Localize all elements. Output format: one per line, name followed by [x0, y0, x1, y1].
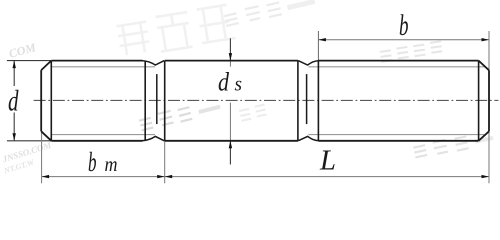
stud outline top edge left thread: [51, 60, 142, 62]
arrowhead b left: [318, 38, 326, 41]
left section boundary vertical: [164, 61, 166, 141]
extension line d top: [7, 60, 51, 62]
right chamfer vertical: [478, 61, 480, 141]
watermark blob right-top faint: [380, 41, 443, 62]
extension line b left: [317, 31, 319, 61]
dimension line bm: [42, 176, 165, 178]
watermark COM top-left: [7, 40, 37, 61]
dimension line ds through-stud thin segments: [229, 61, 231, 67]
bottom edge right thread: [318, 140, 478, 142]
dimension line ds lower arrow: [229, 141, 231, 165]
right thread start vertical: [317, 61, 319, 141]
top edge right thread: [318, 60, 478, 62]
right section boundary vertical: [297, 61, 299, 141]
left chamfer bottom: [41, 131, 51, 141]
dimension line d (vertical, broken for label): [13, 61, 15, 86]
svg-text:d: d: [8, 84, 19, 117]
arrowhead b right: [482, 38, 490, 41]
left runout dip top: [142, 61, 165, 65]
extension line b and L right: [488, 31, 490, 183]
left thread end vertical: [144, 61, 146, 141]
watermark blob mid-left: [139, 99, 222, 131]
arrowhead bm right: [157, 175, 165, 178]
dimension line L: [165, 176, 489, 178]
right chamfer top: [479, 61, 489, 71]
top edge middle section: [165, 60, 298, 62]
thread root line right bottom: [308, 134, 484, 136]
svg-text:b: b: [399, 9, 409, 42]
watermark blob bottom-right faint: [413, 130, 494, 159]
left runout bump bottom: [142, 136, 165, 140]
arrowhead d up: [13, 61, 16, 69]
svg-text:L: L: [319, 144, 336, 176]
right runout bump bottom: [298, 136, 319, 140]
arrowhead d down: [13, 133, 16, 141]
watermark blob top-center: [223, 0, 316, 27]
left end face: [40, 70, 42, 131]
extension line bm/L middle (below stud): [164, 141, 166, 184]
thread root line left top: [52, 66, 155, 68]
svg-text:s: s: [235, 74, 243, 96]
thread root line right top: [308, 66, 484, 68]
dimension line ds upper arrow: [229, 38, 231, 60]
right runout dip top: [298, 61, 319, 65]
thread root line left bottom: [52, 134, 155, 136]
watermark large hollow glyphs top: [116, 4, 236, 58]
stud outline bottom edge left thread: [51, 140, 142, 142]
extension line d bottom: [7, 140, 51, 142]
extension line bm left: [41, 131, 43, 183]
dimension line b: [318, 39, 489, 41]
right runout short vertical: [306, 74, 308, 124]
svg-text:m: m: [105, 152, 118, 176]
left chamfer top: [41, 61, 51, 71]
arrowhead L left: [165, 175, 173, 178]
svg-text:b: b: [88, 147, 97, 177]
right end face: [488, 70, 490, 131]
arrowhead bm left: [42, 175, 50, 178]
watermark www bottom-left: [0, 140, 56, 176]
svg-text:d: d: [218, 67, 230, 96]
watermark faint mid-center: [239, 105, 267, 121]
arrowhead L right: [482, 175, 490, 178]
right chamfer bottom: [479, 131, 489, 141]
bottom edge middle section: [165, 140, 298, 142]
left chamfer vertical: [50, 61, 52, 141]
svg-text:COM: COM: [7, 40, 37, 61]
left runout short vertical: [156, 74, 158, 124]
centerline: [34, 99, 499, 101]
